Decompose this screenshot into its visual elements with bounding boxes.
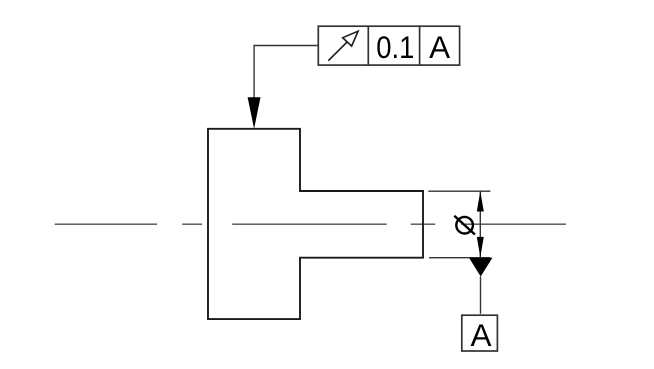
dimension arrow down [477,237,484,257]
svg-text:A: A [429,29,450,65]
centerline axis [55,223,566,225]
feature control frame U1 [318,26,459,65]
circular runout symbol [328,31,358,61]
leader wire from feature control frame [254,46,318,99]
datum feature triangle [469,258,492,277]
svg-text:A: A [470,317,491,353]
leader arrowhead [248,97,261,129]
datum leader stem [480,277,482,314]
diameter symbol [454,216,475,235]
dimension arrow up [477,191,484,211]
svg-text:0.1: 0.1 [376,30,414,65]
datum feature box [462,315,498,351]
extension line top [428,190,490,192]
part outline (stepped shaft profile) [208,129,423,319]
extension line bottom [429,257,490,259]
dimension line [479,191,481,258]
